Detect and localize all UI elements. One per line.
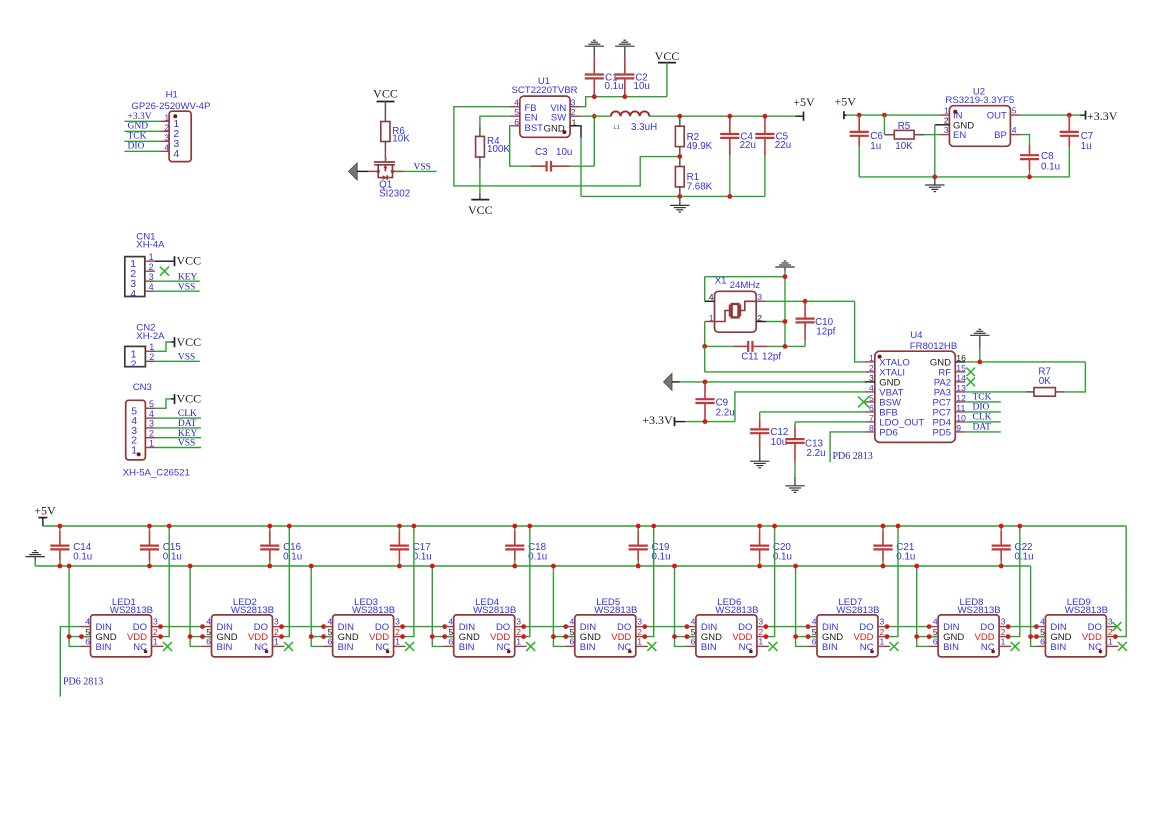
no-connect X at BSW	[858, 396, 869, 407]
svg-text:PD6 2813: PD6 2813	[63, 677, 103, 688]
junction LED2 GND pin	[200, 634, 205, 639]
resistor R2 49.9K	[675, 116, 712, 156]
junction LED3 riser at rail	[309, 564, 314, 569]
junction R5 riser top	[882, 113, 887, 118]
svg-text:10u: 10u	[634, 81, 650, 92]
svg-text:BIN: BIN	[217, 642, 233, 653]
capacitor C5 22u	[755, 116, 791, 196]
svg-text:10u: 10u	[771, 437, 787, 448]
junction LED6 GND row riser	[672, 634, 677, 639]
IC LED3 WS2813B	[323, 597, 406, 657]
svg-text:L1: L1	[614, 125, 620, 131]
svg-text:2: 2	[149, 352, 154, 362]
svg-text:+5V: +5V	[834, 94, 856, 108]
svg-text:1: 1	[149, 342, 154, 352]
svg-text:VCC: VCC	[177, 392, 202, 406]
junction LED6 VDD riser at rail	[772, 524, 777, 529]
junction C15 top	[147, 524, 152, 529]
svg-text:4: 4	[812, 617, 817, 627]
svg-text:VSS: VSS	[178, 439, 195, 449]
wire LED7 DO to LED8 DIN	[888, 626, 928, 628]
no-connect X at LED6 NC	[768, 642, 777, 651]
svg-text:0.1u: 0.1u	[73, 552, 92, 563]
capacitor C6 1u	[850, 115, 884, 177]
svg-text:12pf: 12pf	[762, 352, 781, 363]
wire H1 pin3 net TCK	[124, 131, 160, 141]
junction crystal bottom left	[702, 344, 707, 349]
junction LED1 VDD pin	[158, 634, 163, 639]
junction LED8 riser at rail	[914, 564, 919, 569]
svg-text:DIO: DIO	[973, 402, 990, 412]
IC U1 SCT2220TVBR	[510, 76, 581, 137]
svg-text:TCK: TCK	[128, 131, 147, 141]
svg-text:22u: 22u	[740, 140, 756, 151]
svg-text:2: 2	[131, 358, 137, 370]
svg-text:4: 4	[149, 282, 154, 292]
capacitor C13 2.2u	[785, 427, 825, 462]
svg-text:1: 1	[1108, 637, 1113, 647]
svg-text:1: 1	[880, 637, 885, 647]
svg-text:H1: H1	[166, 90, 178, 101]
wire LED2 DO to LED3 DIN	[283, 626, 323, 628]
power flag +3.3V at U2 out	[1081, 109, 1118, 123]
junction LED5 DO pin	[642, 624, 647, 629]
capacitor C9 2.2u	[695, 382, 734, 422]
svg-text:GND: GND	[544, 124, 565, 135]
svg-text:10: 10	[956, 413, 966, 423]
capacitor C22 0.1u	[992, 526, 1034, 566]
wire +5V to U2 IN	[847, 114, 940, 116]
junction LED9 GND row riser	[1028, 634, 1033, 639]
svg-text:1: 1	[131, 445, 137, 457]
svg-text:DAT: DAT	[973, 422, 992, 432]
svg-text:KEY: KEY	[178, 429, 198, 439]
junction LED5 riser at rail	[551, 564, 556, 569]
junction R1 bottom	[677, 194, 682, 199]
svg-text:5: 5	[570, 627, 575, 637]
svg-text:6: 6	[933, 637, 938, 647]
capacitor C20 0.1u	[750, 526, 792, 566]
svg-text:PD5: PD5	[933, 428, 951, 439]
capacitor C21 0.1u	[873, 526, 915, 566]
svg-text:2: 2	[516, 627, 521, 637]
IC LED6 WS2813B	[686, 597, 769, 657]
svg-text:SW: SW	[551, 113, 566, 124]
wire SW to L1	[581, 115, 611, 117]
wire U2 GND to rail	[934, 125, 936, 177]
wire LED1 VDD riser	[162, 526, 170, 637]
svg-text:X1: X1	[715, 275, 727, 286]
svg-text:4: 4	[691, 617, 696, 627]
IC LED7 WS2813B	[807, 597, 890, 657]
junction LED6 VDD pin	[764, 634, 769, 639]
svg-text:3: 3	[869, 373, 874, 383]
junction C21 bottom	[881, 564, 886, 569]
svg-text:1: 1	[516, 637, 521, 647]
junction C19 bottom	[636, 564, 641, 569]
no-connect X at LED8 NC	[1011, 642, 1020, 651]
svg-text:9: 9	[956, 423, 961, 433]
wire PC7 net TCK	[965, 392, 1001, 402]
svg-text:TCK: TCK	[973, 392, 992, 402]
svg-text:4: 4	[570, 617, 575, 627]
svg-text:6: 6	[570, 637, 575, 647]
junction LED6 DIN pin	[685, 624, 690, 629]
wire L1 to +5V rail	[649, 115, 795, 117]
svg-text:16: 16	[956, 353, 966, 363]
svg-text:VCC: VCC	[177, 335, 202, 349]
svg-text:4: 4	[1040, 617, 1045, 627]
svg-text:3: 3	[637, 617, 642, 627]
junction LED8 GND pin	[927, 634, 932, 639]
svg-text:2: 2	[395, 627, 400, 637]
wire CN1 pin3 net KEY	[155, 272, 200, 282]
power flag VCC above R6	[373, 87, 398, 122]
wire CN3 pin1 net VSS	[155, 439, 201, 449]
no-connect X at LED2 NC	[284, 642, 293, 651]
junction C18 top	[512, 524, 517, 529]
capacitor C17 0.1u	[390, 526, 432, 566]
wire LED1 ground riser	[69, 566, 90, 646]
svg-text:1: 1	[637, 637, 642, 647]
svg-text:2.2u: 2.2u	[716, 407, 735, 418]
junction LED3 DO pin	[400, 624, 405, 629]
wire CN3 pin2 net KEY	[155, 429, 201, 439]
wire LED7 VDD riser	[888, 526, 898, 637]
junction LED5 VDD riser at rail	[651, 524, 656, 529]
junction C1-VIN	[592, 94, 597, 99]
svg-text:2: 2	[1108, 627, 1113, 637]
wire PD6 net stub	[830, 432, 873, 462]
power flag VCC above U1 VIN	[655, 49, 680, 63]
junction LED9 GND pin	[1034, 634, 1039, 639]
junction LED1 GND row riser	[67, 634, 72, 639]
junction LED2 DIN pin	[200, 624, 205, 629]
svg-text:1: 1	[153, 637, 158, 647]
wire CN3 pin4 net CLK	[155, 409, 201, 419]
capacitor C7 1u	[1060, 115, 1094, 177]
ground below R1	[670, 196, 689, 212]
svg-text:7.68K: 7.68K	[687, 181, 713, 192]
junction LED8 DIN pin	[927, 624, 932, 629]
svg-text:0.1u: 0.1u	[413, 552, 432, 563]
svg-text:SI2302: SI2302	[379, 189, 410, 200]
wire FB feedback loop	[454, 107, 680, 186]
svg-text:0K: 0K	[1039, 376, 1051, 387]
power flag +5V at LED rail	[34, 503, 56, 526]
junction LED3 DIN pin	[321, 624, 326, 629]
svg-text:1u: 1u	[1081, 141, 1092, 152]
svg-text:3: 3	[880, 617, 885, 627]
svg-text:4: 4	[164, 143, 169, 152]
wire U4 GND row	[680, 381, 865, 383]
ground below C13	[785, 462, 804, 493]
junction LED6 GND pin	[685, 634, 690, 639]
svg-text:5: 5	[448, 627, 453, 637]
wire LED5 ground riser	[553, 566, 574, 646]
svg-text:4: 4	[448, 617, 453, 627]
wire LED4 ground riser	[432, 566, 453, 646]
wire BFB row	[760, 412, 865, 419]
svg-text:4: 4	[869, 383, 874, 393]
wire XTALO net	[766, 301, 865, 362]
svg-text:5: 5	[812, 627, 817, 637]
capacitor C16 0.1u	[260, 526, 302, 566]
capacitor C10 12pf	[796, 301, 836, 346]
svg-text:13: 13	[956, 383, 966, 393]
svg-text:1: 1	[869, 353, 874, 363]
svg-text:PD6 2813: PD6 2813	[833, 451, 873, 462]
svg-text:0.1u: 0.1u	[896, 552, 915, 563]
junction LED8 VDD pin	[1006, 634, 1011, 639]
svg-text:4: 4	[327, 617, 332, 627]
svg-text:0.1u: 0.1u	[605, 81, 624, 92]
wire BP to C8	[1020, 135, 1029, 145]
svg-text:5: 5	[85, 627, 90, 637]
svg-text:KEY: KEY	[178, 272, 198, 282]
svg-text:BIN: BIN	[580, 642, 596, 653]
ground above crystal	[775, 261, 794, 277]
junction C16 top	[267, 524, 272, 529]
wire U4 pin16 GND net to R7	[965, 362, 1085, 392]
svg-text:0.1u: 0.1u	[528, 552, 547, 563]
svg-text:CLK: CLK	[178, 409, 197, 419]
wire GND LED rail	[35, 565, 1030, 567]
junction LED4 GND pin	[442, 634, 447, 639]
resistor R6 10K	[381, 122, 410, 152]
no-connect X at LED9 NC	[1118, 642, 1127, 651]
power flag VCC at CN2 pin1	[155, 335, 201, 352]
svg-text:6: 6	[85, 637, 90, 647]
junction LED2 riser at rail	[188, 564, 193, 569]
capacitor C19 0.1u	[629, 526, 671, 566]
svg-text:1: 1	[1001, 637, 1006, 647]
svg-text:3: 3	[153, 617, 158, 627]
svg-text:1: 1	[164, 113, 169, 122]
no-connect X at LED4 NC	[526, 642, 535, 651]
port arrow at Q1 source	[349, 163, 369, 180]
capacitor C15 0.1u	[140, 526, 182, 566]
junction LED4 DIN pin	[442, 624, 447, 629]
no-connect X at LED9 DO	[1112, 622, 1121, 631]
wire LED8 ground riser	[917, 566, 938, 646]
svg-text:6: 6	[691, 637, 696, 647]
inductor L1 3.3uH	[611, 111, 657, 132]
wire U1 bottom ground rail	[581, 195, 765, 197]
wire LED6 DO to LED7 DIN	[767, 626, 807, 628]
svg-text:6: 6	[448, 637, 453, 647]
svg-text:3: 3	[149, 419, 154, 429]
svg-text:3: 3	[149, 272, 154, 282]
wire LED3 VDD riser	[404, 526, 414, 637]
junction LED1 DO pin	[158, 624, 163, 629]
wire CN2 pin2 net VSS	[155, 352, 199, 362]
IC LED5 WS2813B	[565, 597, 648, 657]
svg-text:24MHz: 24MHz	[730, 280, 761, 291]
svg-text:EN: EN	[525, 113, 538, 124]
svg-text:DIO: DIO	[128, 141, 145, 151]
svg-text:0.1u: 0.1u	[283, 552, 302, 563]
svg-text:15: 15	[956, 363, 966, 373]
wire R4 to VCC	[479, 167, 481, 200]
svg-text:0.1u: 0.1u	[163, 552, 182, 563]
junction LED5 DIN pin	[563, 624, 568, 629]
ground above U4 pin16	[970, 329, 989, 362]
junction C22 bottom	[999, 564, 1004, 569]
svg-text:5: 5	[869, 393, 874, 403]
ground below U2	[925, 177, 944, 192]
svg-text:EN: EN	[953, 130, 966, 141]
junction LED3 GND pin	[321, 634, 326, 639]
no-connect X at LED1 NC	[163, 642, 172, 651]
wire LED1 DIN net PD6	[60, 627, 103, 697]
connector CN1 XH-4A	[125, 232, 165, 301]
junction LED5 VDD pin	[642, 634, 647, 639]
wire LDO_OUT row	[795, 422, 865, 427]
wire U1 GND pin to bottom rail	[570, 126, 581, 197]
resistor R4 100K	[476, 126, 511, 167]
svg-text:5: 5	[1012, 106, 1017, 116]
svg-text:+3.3V: +3.3V	[1087, 109, 1118, 123]
junction LED5 GND row riser	[551, 634, 556, 639]
svg-text:VSS: VSS	[178, 282, 195, 292]
junction LED7 VDD pin	[885, 634, 890, 639]
wire LED5 DO to LED6 DIN	[646, 626, 686, 628]
capacitor C11 12pf	[734, 341, 782, 363]
svg-text:XH-2A: XH-2A	[136, 331, 165, 342]
svg-text:VCC: VCC	[373, 87, 398, 101]
wire LED4 VDD riser	[525, 526, 530, 637]
no-connect X at LED5 NC	[647, 642, 656, 651]
junction LED2 VDD pin	[279, 634, 284, 639]
svg-text:R5: R5	[898, 121, 911, 132]
svg-text:4: 4	[933, 617, 938, 627]
svg-text:BIN: BIN	[701, 642, 717, 653]
transistor Q1 SI2302	[368, 151, 410, 199]
svg-text:2: 2	[757, 313, 762, 323]
svg-text:1: 1	[944, 106, 949, 116]
svg-text:1: 1	[274, 637, 279, 647]
svg-text:100K: 100K	[487, 144, 510, 155]
svg-text:4: 4	[1012, 125, 1017, 135]
svg-text:2: 2	[758, 627, 763, 637]
svg-text:6: 6	[812, 637, 817, 647]
junction C21 top	[881, 524, 886, 529]
IC U2 RS3219-3.3YF5	[935, 86, 1021, 146]
capacitor C1 0.1u	[585, 57, 624, 97]
svg-text:3: 3	[395, 617, 400, 627]
svg-text:4: 4	[206, 617, 211, 627]
capacitor C3 10u bootstrap	[530, 147, 572, 172]
power flag VCC at CN3 pin5	[155, 392, 201, 409]
svg-text:2: 2	[944, 115, 949, 125]
ground below C12	[750, 450, 769, 468]
power flag +5V at rail end	[793, 95, 815, 121]
svg-text:3: 3	[571, 98, 576, 108]
junction LED1 GND pin	[79, 634, 84, 639]
svg-text:VSS: VSS	[414, 162, 431, 172]
junction C4 top	[727, 114, 732, 119]
svg-text:CN3: CN3	[133, 382, 152, 393]
wire LED9 ground riser	[1031, 566, 1045, 646]
wire BST loop	[510, 126, 531, 166]
junction R2 top	[677, 114, 682, 119]
junction C8 bottom	[1027, 175, 1032, 180]
wire VCC to VIN rail	[581, 63, 667, 107]
IC LED8 WS2813B	[928, 597, 1011, 657]
junction C9 bottom	[703, 419, 708, 424]
svg-text:C3: C3	[535, 147, 548, 158]
wire U2 bottom ground rail	[859, 176, 1069, 178]
svg-text:3: 3	[944, 125, 949, 135]
svg-text:6: 6	[327, 637, 332, 647]
svg-text:XH-4A: XH-4A	[136, 239, 165, 250]
wire PC7 net DIO	[965, 402, 1001, 412]
junction LED2 VDD riser at rail	[287, 524, 292, 529]
svg-text:3.3uH: 3.3uH	[631, 122, 657, 133]
wire +3.3V to VBAT	[685, 392, 864, 422]
IC LED9 WS2813B	[1035, 597, 1118, 657]
wire LED3 DO to LED4 DIN	[404, 626, 444, 628]
svg-text:3: 3	[758, 617, 763, 627]
svg-text:2: 2	[571, 107, 576, 117]
junction LED7 GND row riser	[793, 634, 798, 639]
svg-text:22u: 22u	[775, 140, 791, 151]
svg-text:GP26-2520WV-4P: GP26-2520WV-4P	[131, 101, 210, 112]
no-connect X at CN1 pin2	[160, 267, 169, 276]
junction C17 top	[397, 524, 402, 529]
svg-text:5: 5	[206, 627, 211, 637]
capacitor C18 0.1u	[505, 526, 547, 566]
svg-text:11: 11	[956, 403, 965, 413]
wire PD5 net DAT	[965, 422, 1001, 432]
junction C22 top	[999, 524, 1004, 529]
svg-text:3: 3	[1108, 617, 1113, 627]
capacitor C14 0.1u	[50, 526, 92, 566]
wire crystal pin2 to gnd column	[766, 321, 785, 323]
capacitor C2 10u	[615, 57, 650, 97]
junction C4 bottom	[727, 194, 732, 199]
svg-text:BST: BST	[525, 123, 544, 134]
junction LED4 GND row riser	[430, 634, 435, 639]
svg-text:5: 5	[149, 399, 154, 409]
svg-text:XH-5A_C26521: XH-5A_C26521	[123, 467, 190, 478]
IC LED4 WS2813B	[444, 597, 527, 657]
port arrow at U4 GND	[664, 373, 680, 390]
wire LED8 DO to LED9 DIN	[1009, 626, 1035, 628]
svg-text:2: 2	[880, 627, 885, 637]
svg-text:10K: 10K	[392, 134, 410, 145]
svg-text:2: 2	[637, 627, 642, 637]
junction LED2 DO pin	[279, 624, 284, 629]
svg-text:2: 2	[869, 363, 874, 373]
capacitor C4 22u	[720, 116, 756, 196]
no-connect X at LED3 NC	[405, 642, 414, 651]
junction LED7 DIN pin	[806, 624, 811, 629]
wire LED6 ground riser	[675, 566, 696, 646]
svg-text:VSS: VSS	[178, 352, 195, 362]
svg-text:5: 5	[327, 627, 332, 637]
svg-text:7: 7	[869, 413, 874, 423]
junction crystal gnd stem	[783, 274, 788, 279]
svg-text:BIN: BIN	[822, 642, 838, 653]
junction C15 bottom	[147, 564, 152, 569]
junction SW node	[592, 114, 597, 119]
crystal X1 24MHz	[705, 275, 766, 332]
junction LED2 GND row riser	[188, 634, 193, 639]
svg-text:VCC: VCC	[655, 49, 680, 63]
wire OUT to +3.3V	[1020, 114, 1080, 116]
